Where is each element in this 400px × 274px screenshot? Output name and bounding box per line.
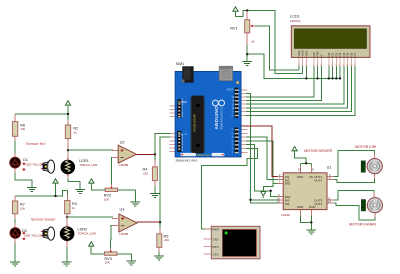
svg-text:E: E (319, 54, 323, 56)
svg-text:VEE: VEE (304, 50, 308, 56)
svg-text:ARDUINO: ARDUINO (214, 106, 219, 130)
svg-text:U1: U1 (327, 165, 332, 169)
svg-text:IN4: IN4 (285, 202, 290, 206)
svg-text:RTS: RTS (213, 245, 219, 249)
svg-text:10k: 10k (20, 206, 25, 210)
svg-text:D1: D1 (23, 158, 28, 162)
svg-text:MOTOR DRIVER: MOTOR DRIVER (304, 149, 332, 153)
svg-text:220: 220 (164, 238, 169, 242)
svg-text:CTS: CTS (213, 252, 219, 256)
svg-text:GND: GND (309, 205, 317, 209)
svg-text:LM358: LM358 (119, 163, 129, 167)
svg-text:D7: D7 (353, 52, 357, 56)
svg-text:LM041L: LM041L (290, 19, 301, 23)
svg-text:220: 220 (143, 171, 148, 175)
svg-text:U3: U3 (120, 208, 125, 212)
svg-text:ATMEGA328P: ATMEGA328P (193, 114, 197, 132)
svg-text:TORCH_LDR: TORCH_LDR (79, 163, 98, 167)
svg-text:LM358: LM358 (119, 232, 129, 236)
svg-text:MOTOR KANAN: MOTOR KANAN (349, 222, 376, 226)
svg-text:Sensor kanan: Sensor kanan (31, 217, 56, 222)
svg-text:10k: 10k (20, 127, 25, 131)
svg-text:MOTOR KIRI: MOTOR KIRI (355, 145, 376, 149)
svg-text:1k: 1k (73, 130, 77, 134)
svg-text:10K: 10K (105, 261, 110, 265)
svg-text:Sensor Kiri: Sensor Kiri (26, 141, 46, 146)
svg-text:L293D: L293D (281, 213, 291, 217)
svg-text:TXD: TXD (213, 237, 220, 241)
svg-text:VDD: VDD (297, 175, 304, 179)
svg-text:1k: 1k (72, 206, 76, 210)
svg-text:10K: 10K (104, 197, 109, 201)
svg-text:WWW.ARDUINO.CC: WWW.ARDUINO.CC (220, 107, 223, 130)
svg-text:TORCH_LDR: TORCH_LDR (78, 231, 97, 235)
svg-text:OUT2: OUT2 (314, 178, 322, 182)
svg-text:LED-YELLOW: LED-YELLOW (24, 233, 44, 237)
svg-text:RV1: RV1 (230, 26, 237, 30)
svg-text:VS: VS (309, 175, 313, 179)
svg-text:1k: 1k (251, 39, 255, 43)
svg-text:RXD: RXD (213, 227, 220, 231)
svg-text:SIM1: SIM1 (176, 62, 184, 66)
svg-text:EN1: EN1 (285, 182, 291, 186)
svg-text:U2: U2 (120, 140, 125, 144)
svg-text:SIMULINO UNO: SIMULINO UNO (176, 158, 199, 162)
svg-text:GND: GND (297, 205, 305, 209)
svg-text:AREF: AREF (226, 87, 233, 91)
svg-text:LED-YELLOW: LED-YELLOW (25, 163, 45, 167)
svg-text:SIMULINO: SIMULINO (197, 153, 211, 157)
